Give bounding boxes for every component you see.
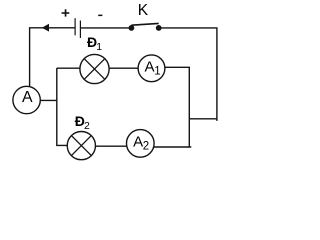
switch K lever (131, 23, 158, 25)
switch K dot right (156, 25, 162, 31)
svg-text:A: A (22, 89, 33, 106)
wire left branch vertical (57, 68, 68, 145)
switch K dot left (129, 25, 135, 31)
wire branch2 right (154, 146, 191, 148)
current arrow (42, 24, 49, 32)
wire branch1 left (57, 67, 80, 69)
lamp D1 circle (80, 54, 109, 83)
wire jog to inner vertical (189, 118, 217, 120)
svg-text:2: 2 (84, 120, 90, 132)
ammeter A circle (13, 86, 40, 113)
lamp D1 cross (84, 59, 105, 80)
battery - label (98, 15, 102, 17)
lamp D2 circle (67, 132, 95, 160)
ammeter A1 circle (138, 55, 165, 82)
lamp D2 cross (71, 136, 91, 156)
wire branch1 right (165, 67, 190, 147)
svg-text:K: K (138, 2, 149, 19)
battery + label (62, 9, 70, 16)
ammeter A2 circle (127, 130, 155, 158)
battery right plate (-) (80, 21, 81, 39)
svg-text:A: A (133, 133, 143, 150)
wire branch2 middle (95, 145, 126, 147)
battery left plate (+) (75, 18, 76, 35)
wire top-left horizontal (30, 28, 75, 87)
svg-text:2: 2 (143, 141, 149, 153)
wire battery to switch (81, 27, 129, 29)
wire branch1 middle (109, 67, 138, 69)
svg-text:A: A (145, 58, 155, 75)
svg-text:1: 1 (96, 41, 102, 53)
svg-text:1: 1 (154, 66, 160, 78)
wire switch to top-right corner and right vertical (162, 28, 217, 121)
wire ammeter A right (40, 99, 57, 101)
